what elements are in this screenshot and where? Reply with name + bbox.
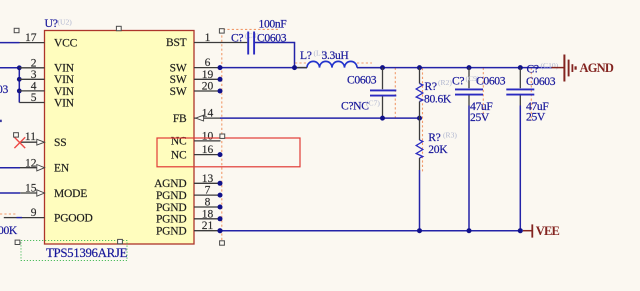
svg-text:11: 11	[25, 131, 36, 143]
selection handle top-left	[14, 28, 19, 32]
pin 17 VCC	[20, 42, 45, 44]
svg-text:C?NC: C?NC	[341, 100, 369, 113]
svg-text:80.6K: 80.6K	[424, 92, 452, 105]
pin 9 PGOOD	[4, 217, 17, 219]
svg-text:20: 20	[202, 81, 214, 93]
wire EN stub	[0, 167, 20, 169]
svg-text:NC: NC	[171, 149, 187, 161]
svg-text:VIN: VIN	[54, 74, 75, 86]
node junction pin 21 PGND	[217, 228, 222, 233]
resistor R3 20K stem top	[419, 118, 421, 140]
power port AGND	[552, 55, 576, 82]
selection handle above SS cross	[14, 133, 19, 137]
node junction R2 bottom / FB	[417, 116, 422, 121]
svg-text:1: 1	[205, 32, 211, 44]
node VIN junction pin4	[17, 89, 22, 94]
resistor R2 zigzag	[416, 84, 423, 102]
capacitor C10 wire bottom to VEE rail	[519, 96, 521, 106]
svg-text:EN: EN	[54, 163, 70, 175]
node junction pin 20 SW	[218, 89, 223, 94]
svg-text:(U2): (U2)	[58, 18, 73, 27]
pin 21 PGND	[194, 230, 221, 232]
pin 15 MODE	[20, 192, 44, 194]
svg-text:MODE: MODE	[54, 188, 87, 200]
node junction BST/SW	[292, 65, 297, 70]
wire SW rail: pin column to inductor	[220, 67, 307, 69]
svg-text:U?: U?	[45, 16, 58, 30]
pin 10 NC	[194, 140, 221, 142]
wire (selected, dashed) vertical at C10	[530, 68, 532, 121]
svg-text:TPS51396ARJE: TPS51396ARJE	[46, 246, 128, 260]
capacitor C9 wire bottom to VEE rail	[468, 96, 470, 106]
svg-text:SW: SW	[170, 74, 187, 86]
selection handle top of pin column	[219, 29, 224, 33]
svg-text:AGND: AGND	[580, 61, 614, 75]
svg-text:VIN: VIN	[54, 63, 75, 75]
svg-text:VIN: VIN	[54, 97, 75, 109]
pin input arrow EN	[37, 165, 45, 171]
wire selection dashes (vertical at x=222 along right pin column)	[0, 29, 531, 240]
wire MODE stub	[0, 192, 20, 194]
pin 7 PGND	[194, 194, 221, 196]
pin input arrow FB	[196, 115, 204, 121]
selection dotted box around value label	[21, 241, 127, 261]
svg-text:2: 2	[31, 57, 37, 69]
svg-text:L?: L?	[300, 49, 312, 62]
svg-text:BST: BST	[166, 37, 187, 49]
node junction pin 8 PGND	[218, 205, 223, 210]
svg-text:6: 6	[205, 57, 211, 69]
node VIN junction pin2	[17, 65, 22, 70]
svg-text:VIN: VIN	[54, 86, 75, 98]
resistor R2 80.6K stem top	[419, 68, 421, 84]
node junction C10 top	[518, 65, 523, 70]
node VIN junction pin3	[17, 77, 22, 82]
svg-text:SS: SS	[54, 137, 66, 149]
capacitor C9 plates	[455, 89, 483, 94]
pin input arrow MODE	[37, 190, 45, 196]
svg-text:25V: 25V	[470, 111, 490, 124]
capacitor C7 (C?NC) stem top	[382, 68, 384, 90]
pin 11 SS	[20, 141, 45, 143]
node junction pin 18 PGND	[218, 216, 223, 221]
pin 2 VIN	[19, 67, 44, 69]
svg-text:5: 5	[31, 92, 37, 104]
svg-text:(R3): (R3)	[443, 130, 457, 139]
svg-text:10: 10	[202, 130, 214, 142]
node junction C9 top	[467, 65, 472, 70]
svg-text:C?: C?	[452, 75, 464, 88]
pin 20 SW	[194, 90, 221, 92]
svg-text:FB: FB	[173, 113, 187, 125]
svg-text:C?: C?	[527, 62, 539, 75]
capacitor C8 100nF (series, vertical plates)	[248, 32, 254, 55]
wire (selected, dashed) left of inductor	[295, 62, 307, 64]
svg-text:18: 18	[202, 208, 214, 220]
pin 5 VIN	[19, 102, 44, 104]
svg-text:20K: 20K	[428, 143, 448, 156]
svg-text:SW: SW	[170, 86, 187, 98]
resistor R2 stem bottom	[419, 102, 421, 119]
svg-text:PGOOD: PGOOD	[54, 213, 93, 225]
pin 6 SW	[194, 67, 221, 69]
wire (selected, dashed) stub at PGOOD row	[0, 213, 17, 215]
pin 13 AGND	[194, 182, 221, 184]
wire (selected, dashed) right of inductor	[357, 62, 372, 64]
svg-text:(C7): (C7)	[366, 99, 380, 108]
selection handle top of body (value label pair)	[116, 26, 121, 30]
node junction C9 bottom rail	[467, 228, 472, 233]
svg-text:4: 4	[31, 81, 37, 93]
pin 18 PGND	[194, 218, 221, 220]
svg-text:00K: 00K	[0, 224, 18, 237]
svg-text:(R2): (R2)	[438, 78, 452, 87]
node junction R3 bottom rail	[417, 228, 422, 233]
power port VEE (bar style)	[523, 224, 532, 237]
svg-text:03: 03	[0, 83, 8, 96]
node junction pin 6 SW	[218, 65, 223, 70]
svg-text:100nF: 100nF	[259, 18, 288, 31]
junction dots right pin column	[217, 65, 222, 233]
svg-text:9: 9	[31, 207, 37, 219]
selection handle bottom of pin column	[220, 241, 225, 245]
wire (selected, dashed) vertical at C9	[482, 68, 484, 118]
svg-text:19: 19	[202, 69, 214, 81]
svg-text:AGND: AGND	[154, 178, 186, 190]
wire BST: pin1 to cap C8 left plate	[220, 42, 247, 44]
svg-text:C0603: C0603	[526, 75, 556, 88]
pin 14 FB	[194, 117, 221, 119]
svg-text:SW: SW	[170, 62, 187, 74]
svg-text:13: 13	[202, 173, 214, 185]
svg-text:R?: R?	[428, 131, 440, 144]
wire VCC stub (left edge to pin 17)	[0, 42, 20, 44]
pin 1 BST	[194, 42, 221, 44]
selection handle near pin 10	[220, 134, 225, 138]
svg-text:21: 21	[202, 220, 214, 232]
wire (selected, dashed) vertical along right pin column	[221, 31, 223, 241]
inductor L1 3.3uH	[307, 61, 357, 67]
svg-text:25V: 25V	[526, 111, 546, 124]
node junction pin 16 NC	[218, 152, 223, 157]
svg-text:VEE: VEE	[536, 224, 560, 238]
svg-text:16: 16	[202, 144, 214, 156]
pin 19 SW	[194, 78, 221, 80]
capacitor C10 stem top	[519, 68, 521, 89]
inductor L1 pin stubs (dark)	[297, 67, 308, 69]
selection handle left of value label	[15, 240, 20, 244]
svg-text:3: 3	[31, 69, 37, 81]
svg-text:(C10): (C10)	[541, 61, 559, 70]
capacitor C7 stem bottom to FB rail	[382, 97, 384, 119]
resistor R3 stem bottom / wire to VEE rail	[419, 158, 421, 170]
svg-text:C0603: C0603	[347, 73, 377, 86]
wire FB rail	[220, 117, 420, 119]
node junction VEE port	[518, 228, 523, 233]
svg-text:15: 15	[25, 183, 37, 195]
red highlight rectangle around NC pins	[157, 138, 300, 167]
node junction pin 13 AGND	[218, 181, 223, 186]
svg-text:PGND: PGND	[156, 214, 187, 226]
pin 3 VIN	[19, 78, 44, 80]
svg-text:C?: C?	[231, 31, 243, 44]
node junction R2 top	[417, 65, 422, 70]
svg-text:PGND: PGND	[156, 190, 187, 202]
wire PGOOD stub (small blue remnant)	[17, 217, 23, 219]
capacitor C10 plates	[506, 89, 534, 94]
resistor R3 zigzag	[416, 140, 423, 158]
node junction pin 7 PGND	[218, 193, 223, 198]
svg-text:R?: R?	[425, 80, 437, 93]
svg-text:14: 14	[202, 108, 214, 120]
wire VEE rail	[220, 230, 520, 232]
svg-text:12: 12	[25, 157, 37, 169]
capacitor C7 plates	[370, 90, 396, 95]
svg-text:8: 8	[205, 197, 211, 209]
node junction C7 top	[380, 65, 385, 70]
capacitor C9 stem top	[468, 68, 470, 89]
wire BST cap right plate to corner	[255, 42, 295, 44]
wire BST corner down to SW rail	[294, 43, 296, 68]
svg-text:7: 7	[205, 185, 211, 197]
left edge maroon fragment	[0, 120, 2, 122]
pin 4 VIN	[19, 90, 44, 92]
wire VIN feed (left edge to pin 2)	[0, 67, 19, 69]
svg-text:17: 17	[25, 32, 37, 44]
svg-text:PGND: PGND	[156, 226, 187, 238]
wire (selected, dashed) vertical at R2/R3	[422, 68, 424, 172]
no-ERC red cross at pin 11 SS	[14, 137, 25, 148]
svg-text:VCC: VCC	[54, 37, 78, 49]
svg-text:C0603: C0603	[476, 75, 506, 88]
wire (selected, dashed) horizontal above BST cap	[223, 28, 280, 30]
wire VIN vertical bus	[18, 68, 20, 103]
node junction pin 19 SW	[218, 77, 223, 82]
svg-text:PGND: PGND	[156, 202, 187, 214]
node junction C7 bottom / FB	[380, 116, 385, 121]
IC U? TPS51396ARJE body	[45, 31, 195, 245]
pin 8 PGND	[194, 206, 221, 208]
pin input arrow SS	[37, 139, 45, 145]
wire VOUT rail: inductor to AGND branch	[357, 67, 552, 69]
svg-text:3.3uH: 3.3uH	[322, 49, 350, 62]
pin 12 EN	[20, 167, 45, 169]
pin 16 NC	[194, 154, 221, 156]
selection handle on value label box	[118, 239, 123, 243]
wire (selected, dashed) vertical at C7	[394, 68, 396, 118]
